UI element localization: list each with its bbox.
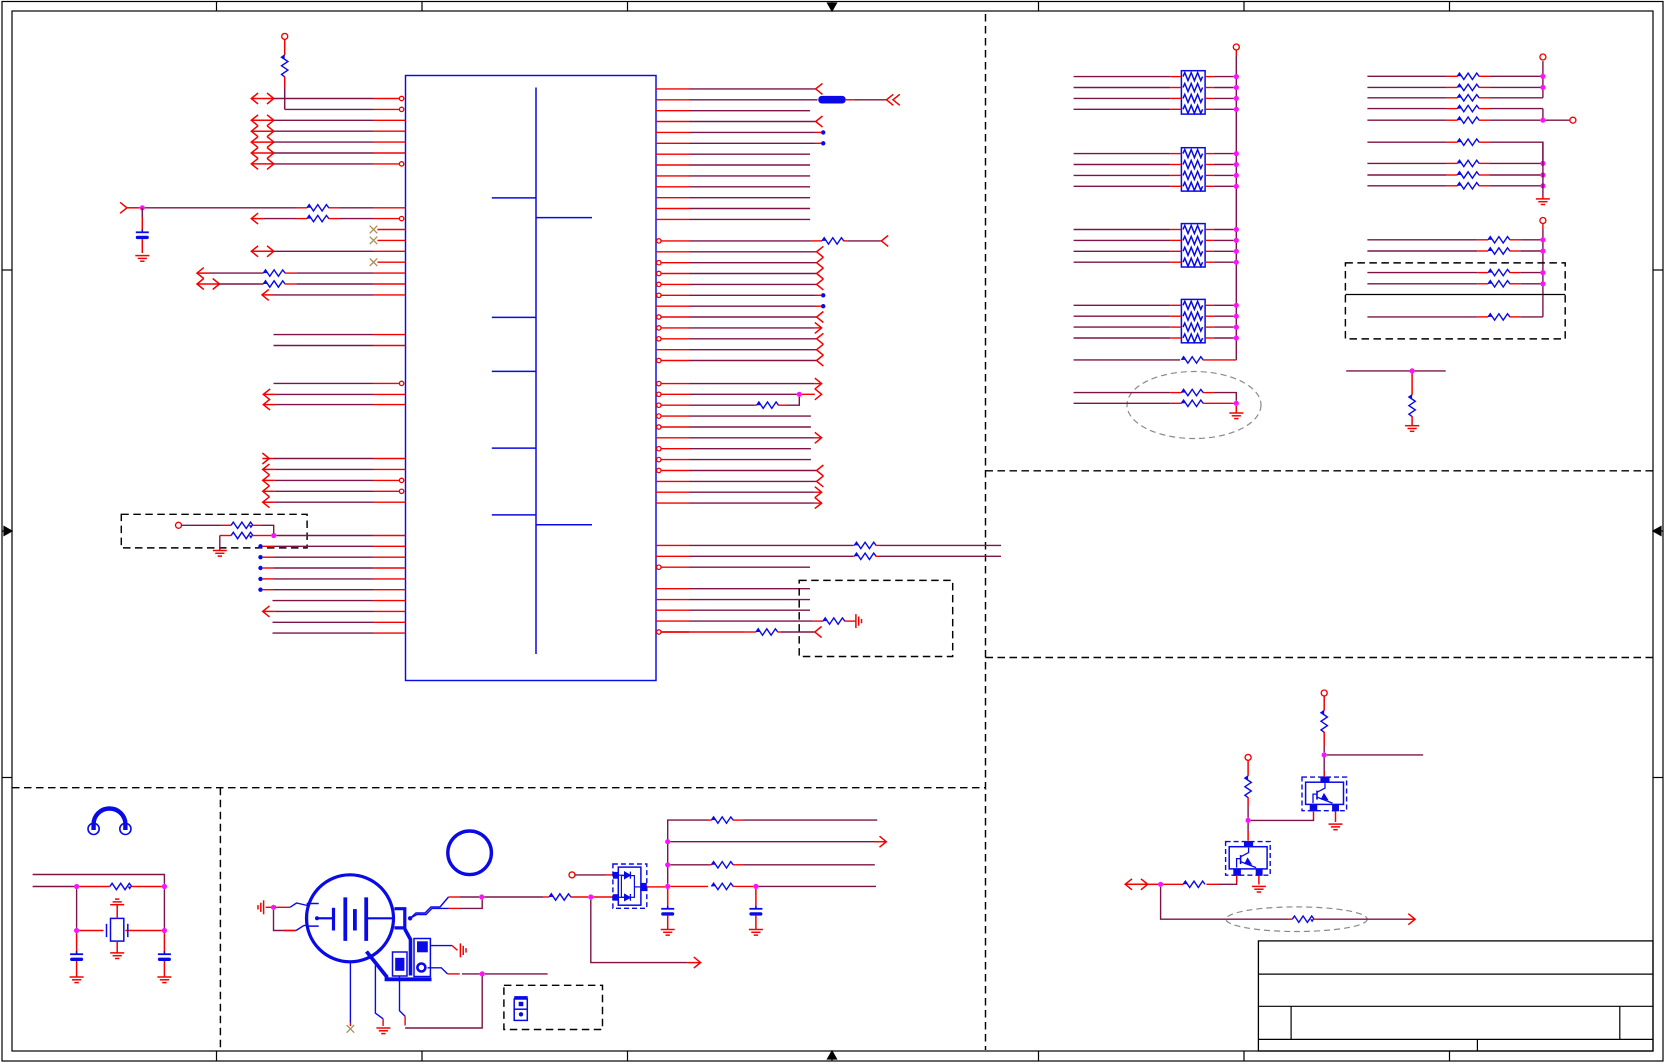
- wire far-right row 163 with resistor: [1367, 162, 1446, 164]
- wire RP1 row 109: [1074, 108, 1171, 110]
- ground below node D: [1235, 406, 1237, 413]
- crystal Y1: [79, 918, 162, 941]
- wire left pin row 600: [273, 600, 374, 602]
- wire R18 to node G: [1323, 746, 1325, 752]
- node M junction: [162, 928, 167, 933]
- wire node N down to lower contact: [274, 910, 297, 931]
- node A junction: [140, 205, 145, 210]
- terminal TP1: [282, 33, 288, 39]
- wire left pin row5 with offpage arrow: [251, 137, 258, 148]
- resistor R11: [853, 555, 854, 557]
- resistor R23: [544, 896, 549, 898]
- wire node P to diode pack: [593, 896, 613, 898]
- dashed region divider right horizontal upper: [986, 470, 1654, 472]
- wire right pin row 567: [657, 565, 661, 569]
- wire right pin row 197: [656, 197, 689, 199]
- node F junction: [1410, 368, 1415, 373]
- wire right pin row 427: [657, 425, 661, 429]
- wire RP4 row 316: [1074, 315, 1171, 317]
- wire left pin row3 with offpage arrow: [251, 115, 258, 126]
- wire node J down: [76, 889, 78, 928]
- resistor R17 vertical to ground: [1411, 374, 1413, 395]
- resistor R18 vertical: [1323, 696, 1325, 711]
- wire RP2 row 186: [1074, 185, 1171, 187]
- wire left pin row 589 with junction dot: [258, 588, 262, 592]
- wire left pin row 480 with arrow: [263, 475, 270, 486]
- wire RP2 row 175: [1074, 174, 1171, 176]
- resistor R4: [263, 270, 267, 273]
- wire right pin row 405 with R9 to node C: [657, 403, 661, 407]
- wire right pin row 219: [656, 218, 689, 220]
- wire node A to R2: [145, 207, 297, 209]
- wire node P down to arrow: [591, 900, 688, 963]
- wire right pin row 360: [657, 358, 661, 362]
- dashed box jumper header: [504, 985, 603, 1029]
- wire right pin row 273: [657, 271, 661, 275]
- wire left pin row 335: [274, 334, 374, 336]
- offpage arrow right into node A: [120, 202, 127, 213]
- resistor R26: [711, 883, 715, 886]
- black net line inside dashed box: [1345, 294, 1565, 296]
- wire left pin row 346: [274, 345, 374, 347]
- wire far-right row 109 with resistor: [1367, 108, 1446, 110]
- wire left pin row 218 with arrow and R3: [251, 213, 258, 224]
- capacitor C5: [755, 889, 757, 906]
- resistor pack RP2: [1181, 148, 1205, 191]
- wire R19 to node H: [1247, 806, 1249, 818]
- contact spring wire B: [410, 908, 448, 918]
- resistor pack RP3: [1181, 224, 1205, 267]
- wire J2 square to ac ground: [430, 945, 452, 947]
- wire node R to offpage arrow: [670, 841, 879, 843]
- holder frame pin to ground: [375, 965, 383, 1019]
- ac ground right: [459, 943, 461, 957]
- wire row 371 with node F: [1346, 370, 1446, 372]
- wire RP1 row 98: [1074, 97, 1171, 99]
- wire left pin row 251 with offpage arrow: [251, 246, 258, 257]
- wire right pin row 349: [656, 349, 689, 351]
- terminal TP9: [569, 872, 575, 878]
- wire right pin row 295: [657, 293, 661, 297]
- wire right pin row 165: [656, 164, 689, 166]
- wire RP4 row 338: [1074, 337, 1171, 339]
- wire left pin row 458 with right arrow: [262, 453, 269, 464]
- wire left pin row 557 with junction dot: [258, 555, 262, 559]
- resistor R13: [745, 631, 756, 633]
- ground below Q1: [1329, 823, 1343, 825]
- wire right pin row 599: [656, 599, 689, 601]
- wire left pin row 295 with arrow: [262, 289, 269, 300]
- wire right pin row 100 with ferrite bead FB1: [656, 99, 689, 101]
- wire left pin row 568 with junction dot: [258, 566, 262, 570]
- wire right pin row 251: [656, 251, 689, 253]
- node Q junction: [665, 884, 670, 889]
- bus to ground far-right: [1542, 142, 1544, 196]
- wire right pin row 470: [657, 468, 661, 472]
- wire left pin row7 with offpage arrow: [251, 158, 258, 169]
- contact spring wire A: [410, 897, 448, 918]
- wire row 403 with R16 to ground: [1074, 402, 1171, 404]
- wire right pin row 132 with dot: [656, 131, 689, 133]
- wire right pin row 338: [657, 337, 661, 341]
- wire R6 to node B: [262, 525, 274, 535]
- ground below Q2: [1252, 885, 1266, 887]
- pull-up bus with terminal TP3: [1233, 44, 1239, 50]
- connector J2 with square and circle: [414, 939, 430, 977]
- wire RP3 row 240: [1074, 239, 1171, 241]
- wire right pin row 394 with node C: [657, 392, 661, 396]
- title block: [1258, 941, 1653, 1051]
- terminal TP5: [1570, 117, 1576, 123]
- wire Q2 base to node I: [1236, 876, 1238, 883]
- wire far-right row 142 with resistor: [1367, 141, 1446, 143]
- node E junction: [1540, 118, 1545, 123]
- wire right pin row 610: [656, 609, 689, 611]
- resistor R1 vertical: [284, 39, 286, 55]
- wire node H to Q2 collector: [1247, 823, 1249, 831]
- wire far-right row 251 with resistor: [1367, 250, 1477, 252]
- wire right pin row 459: [657, 457, 661, 461]
- wire R24 right: [743, 819, 878, 821]
- battery symbol: [318, 897, 395, 941]
- ground below C4: [661, 929, 675, 931]
- wire left pin row 546 with junction dot: [258, 544, 262, 548]
- resistor R3: [297, 218, 308, 220]
- wire spring B to node O: [449, 907, 460, 909]
- dashed box far-right group: [1345, 263, 1565, 339]
- wire R2 to IC: [340, 207, 373, 209]
- IC U1 body: [406, 76, 657, 681]
- resistor R6: [221, 524, 231, 526]
- resistor pack RP4: [1181, 299, 1205, 342]
- capacitor C3: [163, 933, 165, 951]
- wire right pin row 154: [656, 153, 689, 155]
- jumper arc W1: [88, 808, 131, 834]
- resistor R20: [1206, 883, 1219, 885]
- wire far-right row 120 with resistor to terminal TP5: [1367, 119, 1446, 121]
- terminal TP4: [1540, 54, 1546, 60]
- wire right pin row 481: [656, 480, 689, 482]
- ground below holder pin: [376, 1027, 390, 1029]
- wire right pin row 208: [656, 208, 689, 210]
- wire lower into crystal area: [33, 886, 74, 888]
- wire left pin row4 with offpage arrow: [251, 126, 258, 137]
- node L junction: [74, 928, 79, 933]
- wire RP1 row 76: [1074, 76, 1171, 78]
- no-connect pin row 262: [377, 261, 405, 263]
- resistor R9: [754, 404, 756, 406]
- connector J1 square pin: [393, 952, 408, 976]
- wire right pin row 448: [657, 447, 661, 451]
- battery holder circle BT1: [307, 875, 394, 962]
- wire right pin row 503: [656, 502, 689, 504]
- dual diode pack D1: [613, 864, 647, 908]
- offpage arrow right battery: [694, 957, 701, 968]
- wire R1 to pin row 2: [284, 87, 286, 109]
- wire R21 to offpage arrow: [1318, 918, 1408, 920]
- resistor R22: [79, 886, 110, 888]
- wire R25 right: [743, 864, 875, 866]
- wire left pin row 502 with arrow: [263, 497, 270, 508]
- wire far-right row 239 with resistor: [1367, 239, 1477, 241]
- ground right row 621: [855, 614, 857, 628]
- resistor R8: [811, 240, 822, 242]
- wire right pin row 437: [656, 437, 689, 439]
- wire far-right row 87 with resistor: [1367, 86, 1446, 88]
- wire RP2 row 153: [1074, 153, 1171, 155]
- wire left pin row 405 with arrow: [263, 399, 270, 410]
- terminal TP8: [1245, 754, 1251, 760]
- node T junction: [753, 884, 758, 889]
- dashed region bottom-left divider: [219, 788, 221, 1050]
- wire right pin row 492: [656, 491, 689, 493]
- wire right pin row 241 with R8 and chevron: [657, 239, 661, 243]
- resistor R15: [1170, 392, 1181, 394]
- capacitor C4: [667, 889, 669, 906]
- resistor R21: [1288, 918, 1292, 920]
- battery holder left contact: [290, 903, 319, 931]
- wire right pin row 186: [656, 186, 689, 188]
- wire row 393 with R15: [1074, 392, 1171, 394]
- wire J1 loop to node U: [400, 976, 406, 1016]
- wire left pin row 611 with arrow: [263, 606, 270, 617]
- node R junction: [665, 839, 670, 844]
- wire single row 360 with R14: [1074, 359, 1181, 361]
- resistor R16: [1170, 402, 1181, 404]
- ground below R17: [1405, 425, 1419, 427]
- node J junction: [74, 884, 79, 889]
- wire right pin row 284: [657, 282, 661, 286]
- battery holder right contact: [394, 909, 412, 928]
- resistor R24: [708, 819, 711, 821]
- spare circle marker: [448, 831, 492, 875]
- offpage arrow right row 842: [880, 836, 887, 847]
- ground below C5: [749, 929, 763, 931]
- wire right pin row 621 with R12 to ground: [656, 620, 689, 622]
- wire left pin row 383: [274, 382, 374, 384]
- wire left pin row 273 with arrow and R4: [197, 268, 204, 279]
- node D junction: [1234, 401, 1239, 406]
- resistor R25: [709, 864, 711, 866]
- wire right pin row 545 with R10: [656, 544, 689, 546]
- wire left pin row 633: [273, 632, 374, 634]
- wire RP3 row 229: [1074, 229, 1171, 231]
- node O junction: [479, 894, 484, 899]
- node C junction: [797, 392, 802, 397]
- wire far-right row 272 with resistor: [1367, 272, 1477, 274]
- ground below C2: [70, 976, 84, 978]
- wire left pin row2 from R1: [285, 108, 373, 110]
- terminal TP7: [1321, 690, 1327, 696]
- wire upper into crystal area: [33, 875, 165, 884]
- node U junction: [480, 971, 485, 976]
- wire node U right: [485, 973, 548, 975]
- node S junction: [665, 862, 670, 867]
- battery case pin with no-connect: [349, 962, 351, 1023]
- wire right pin row 89 with chevron: [656, 88, 689, 90]
- no-connect pin row 240: [377, 239, 405, 241]
- wire RP3 row 251: [1074, 250, 1171, 252]
- wire RP4 row 327: [1074, 326, 1171, 328]
- node P junction: [588, 894, 593, 899]
- ground below crystal: [116, 941, 118, 953]
- wire TP9 to diode pack: [575, 874, 605, 876]
- wire far-right row 283 with resistor: [1367, 283, 1477, 285]
- wire far-right row 97 with resistor: [1367, 97, 1446, 99]
- power bus vertical: [668, 820, 708, 884]
- wire node T right: [759, 885, 877, 887]
- wire RP4 row 305: [1074, 304, 1171, 306]
- node K junction: [162, 884, 167, 889]
- wire TP2 to R6: [181, 524, 221, 526]
- resistor R14: [1181, 357, 1185, 360]
- wire right pin row 175: [656, 175, 689, 177]
- resistor R10: [853, 544, 854, 546]
- ac ground left of battery: [263, 900, 265, 914]
- dashed box termination network: [799, 580, 953, 656]
- wire left pin row 394 with arrow: [263, 389, 270, 400]
- ground below C3: [157, 976, 171, 978]
- holder outline thick: [405, 929, 411, 976]
- resistor R2: [297, 207, 308, 209]
- node N junction: [271, 905, 276, 910]
- wire left pin row 622: [273, 621, 374, 623]
- resistor R5: [263, 281, 267, 284]
- dashed box bias network: [121, 514, 307, 548]
- wire far-right row 185 with resistor: [1367, 185, 1446, 187]
- wire Q1 base to node H: [1313, 811, 1315, 819]
- wire right pin row 111: [656, 110, 689, 112]
- wire right pin row 384 with right chevron: [657, 381, 661, 385]
- wire far-right row 76 with resistor: [1367, 75, 1446, 77]
- transistor Q2: [1226, 842, 1271, 876]
- node H junction: [1246, 818, 1251, 823]
- wire battery plus to node O: [449, 896, 460, 898]
- ground below R7: [219, 548, 221, 550]
- ground above crystal inverted: [115, 898, 119, 900]
- wire node I down and right: [1161, 887, 1288, 919]
- dashed region divider vertical center: [985, 14, 987, 1050]
- wire left pin row 469 with arrow: [263, 464, 270, 475]
- wire far-right row 317 with resistor: [1367, 316, 1477, 318]
- offpage arrow bidirectional node I: [1125, 879, 1132, 890]
- double chevron connector: [887, 94, 894, 105]
- wire R7 to ground: [219, 536, 221, 549]
- ground below C1: [135, 255, 149, 257]
- wire RP3 row 262: [1074, 261, 1171, 263]
- wire FB1 to double chevron: [846, 99, 854, 101]
- wire right pin row 262: [657, 261, 661, 265]
- header JP1: [514, 996, 528, 1020]
- wire diode pack output to bus: [647, 886, 656, 888]
- terminal TP6: [1540, 218, 1546, 224]
- resistor pack RP1: [1181, 71, 1205, 114]
- wire far-right row 175 with resistor: [1367, 174, 1446, 176]
- wire node S to R25: [670, 864, 709, 866]
- wire right pin row 588: [656, 588, 689, 590]
- capacitor C1: [141, 208, 143, 217]
- wire left pin row1 with offpage arrow: [251, 93, 258, 104]
- wire left pin row 578 with junction dot: [258, 577, 262, 581]
- node G junction: [1322, 752, 1327, 757]
- dashed region bottom strip top edge: [12, 787, 986, 789]
- ferrite bead FB1: [818, 96, 845, 104]
- wire Q1 emitter to ground: [1335, 811, 1337, 822]
- wire right pin row 556 with R11: [656, 555, 689, 557]
- wire right pin row 143 with dot: [656, 142, 689, 144]
- transistor Q1: [1302, 777, 1347, 811]
- wire left pin row 284 with offpage arrow and R5: [197, 279, 204, 290]
- wire node O to R23: [484, 896, 543, 898]
- capacitor C2: [76, 933, 78, 951]
- wire node G to Q1 collector: [1323, 758, 1325, 772]
- wire left pin row6 with offpage arrow: [251, 148, 258, 159]
- wire right pin row 306: [656, 305, 689, 307]
- wire RP2 row 164: [1074, 164, 1171, 166]
- ground far-right upper: [1536, 198, 1550, 200]
- wire Q2 emitter to ground: [1258, 876, 1260, 885]
- wire RP1 row 87: [1074, 87, 1171, 89]
- node B junction: [271, 533, 276, 538]
- bus TP6: [1542, 223, 1544, 229]
- wire right pin row 317: [657, 315, 661, 319]
- resistor R19 vertical: [1247, 760, 1249, 776]
- resistor R7: [220, 535, 231, 537]
- wire node G stub right: [1327, 754, 1423, 756]
- wire right pin row 327: [657, 326, 661, 330]
- bus TP4: [1542, 61, 1544, 98]
- offpage arrow right output: [1408, 914, 1415, 925]
- wire node Q to R26: [670, 885, 708, 887]
- wire left pin row 491 with arrow: [263, 486, 270, 497]
- wire right pin row 632 with R13 and chevron: [657, 630, 661, 634]
- wire node B to IC row 535: [276, 535, 373, 537]
- wire J2 circle to node U: [428, 968, 448, 974]
- dashed region divider right horizontal lower: [986, 657, 1654, 659]
- wire right pin row 416: [657, 414, 661, 418]
- node I junction: [1158, 882, 1163, 887]
- resistor R12: [813, 620, 823, 622]
- dashed ellipse highlight pulldown: [1127, 372, 1261, 439]
- dashed ellipse series resistor: [1226, 907, 1367, 932]
- terminal TP2: [176, 522, 182, 528]
- no-connect pin row 229: [377, 229, 405, 231]
- wire right pin row 122 with chevron: [656, 121, 689, 123]
- wire node K down: [163, 889, 165, 928]
